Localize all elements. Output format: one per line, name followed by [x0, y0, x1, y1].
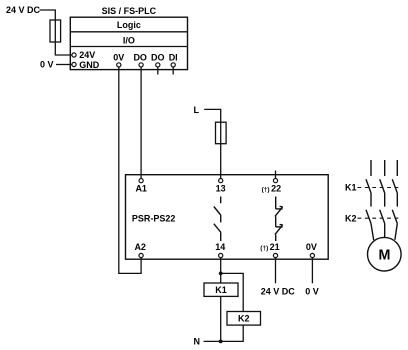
- svg-text:0V: 0V: [306, 242, 317, 252]
- svg-text:GND: GND: [79, 60, 100, 70]
- svg-text:M: M: [379, 248, 391, 264]
- svg-text:A2: A2: [134, 242, 146, 252]
- svg-text:K2: K2: [345, 213, 357, 223]
- svg-text:21: 21: [270, 242, 280, 252]
- svg-text:14: 14: [215, 242, 225, 252]
- svg-text:(†): (†): [262, 186, 270, 193]
- svg-text:13: 13: [216, 184, 226, 194]
- svg-text:DO: DO: [151, 53, 165, 63]
- svg-text:0V: 0V: [113, 53, 124, 63]
- svg-text:SIS / FS-PLC: SIS / FS-PLC: [102, 6, 157, 16]
- svg-text:K1: K1: [215, 285, 227, 295]
- svg-text:DO: DO: [133, 53, 147, 63]
- svg-text:PSR-PS22: PSR-PS22: [132, 213, 176, 223]
- svg-text:24V: 24V: [79, 50, 95, 60]
- svg-text:K2: K2: [238, 314, 250, 324]
- svg-text:24 V DC: 24 V DC: [6, 5, 41, 15]
- svg-text:24 V DC: 24 V DC: [261, 286, 296, 296]
- svg-text:0 V: 0 V: [40, 60, 54, 70]
- svg-text:L: L: [194, 105, 200, 115]
- svg-text:K1: K1: [345, 183, 357, 193]
- svg-text:22: 22: [271, 184, 281, 194]
- svg-text:A1: A1: [135, 184, 147, 194]
- svg-text:(†): (†): [260, 245, 268, 252]
- svg-text:I/O: I/O: [123, 36, 135, 46]
- svg-text:Logic: Logic: [117, 20, 141, 30]
- svg-text:N: N: [194, 336, 201, 346]
- svg-text:0 V: 0 V: [305, 286, 319, 296]
- svg-text:DI: DI: [169, 53, 178, 63]
